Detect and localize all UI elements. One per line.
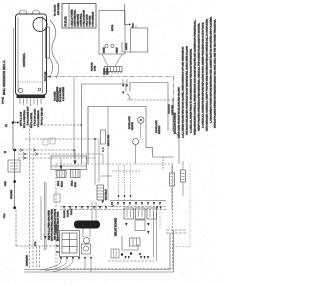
bus pin labels [64, 208, 73, 218]
frame pins [122, 85, 128, 95]
chassis right drop [173, 77, 175, 132]
control bottom terminal bar [17, 95, 46, 99]
front frame box A [81, 84, 126, 164]
ground terminal cluster [8, 160, 20, 172]
blob top leads [91, 202, 93, 221]
dark rounded component [74, 221, 100, 229]
L1 link [13, 122, 18, 124]
board bottom pin row [60, 257, 92, 260]
aux module [111, 249, 119, 258]
door box top ticks [133, 25, 136, 28]
latch dashed run [127, 99, 174, 101]
door lock switch circle [133, 139, 139, 145]
dashed stub [162, 157, 164, 170]
board bottom bus dashed 2 [60, 209, 166, 211]
relay board outline [56, 164, 173, 269]
motor drop [140, 123, 142, 138]
pin marker [129, 23, 131, 25]
striped relay R2 [97, 185, 104, 200]
bottom connector circle 1 [18, 88, 22, 92]
legend rows [72, 9, 95, 27]
wire tag 2 [50, 138, 55, 144]
dash ladder line 1 [25, 124, 81, 126]
top wire with pin [125, 4, 130, 24]
chassis line label [104, 67, 109, 74]
neutral vertical wire [14, 150, 16, 208]
transformer outer [60, 231, 80, 257]
small ring [84, 238, 90, 244]
bottom dashed collector [108, 260, 154, 262]
chassis dash-dot line [47, 76, 174, 78]
R2 pin [102, 201, 105, 204]
control inner edge left [17, 17, 19, 92]
neutral bottom corner [16, 245, 57, 247]
board bottom bus dashed 1 [60, 206, 166, 208]
legend box [62, 4, 96, 29]
relay coil feed dotted drops [119, 165, 131, 201]
relay row box 3 [147, 208, 157, 219]
latch squiggle [127, 94, 131, 100]
relay row box 1 [124, 208, 134, 219]
board vertical wires right [154, 212, 161, 261]
vent tick row [18, 81, 42, 83]
bottom connector circle 2 [38, 88, 41, 91]
harness connector strip P1 [46, 27, 50, 58]
harness squiggle 2 [50, 58, 53, 74]
low junction [13, 206, 16, 209]
quick-connect B body [71, 170, 81, 178]
oven liner corner [88, 107, 146, 165]
quick-connect B lead [74, 150, 76, 161]
pin drop wires [40, 260, 91, 272]
extra dash drops [36, 246, 38, 268]
long bus wire [107, 107, 109, 201]
relay row inner marks [127, 210, 154, 217]
R2 elbow wire [101, 175, 112, 177]
harness squiggle [50, 20, 59, 78]
feed wire labels [48, 209, 60, 241]
connector block P2 [105, 67, 123, 72]
dotted sense elbow [174, 246, 191, 248]
quick-connect B label [72, 180, 77, 187]
terminal strip inner line [51, 165, 87, 167]
L1 second dot [17, 122, 19, 124]
control inner edge [42, 16, 44, 93]
left bus pin marks [63, 206, 107, 210]
scan noise overlay [0, 0, 1, 1]
oven funnel wires [102, 54, 108, 67]
board left edge pins [57, 239, 61, 253]
N junction [13, 149, 16, 152]
terminal strip box [51, 156, 87, 170]
oven light label [55, 91, 60, 101]
motor wires [146, 107, 174, 158]
transformer grid [62, 233, 77, 253]
mid board pins [125, 223, 150, 234]
component box B [130, 238, 141, 246]
L wire on board [122, 236, 138, 250]
dash ladder line 3 [15, 149, 75, 151]
mounting tab 2 [32, 10, 40, 14]
left harness wire [13, 28, 15, 123]
wire tag 1 [43, 139, 48, 145]
bottom bus wires [24, 230, 174, 272]
door box [130, 28, 148, 52]
mid junction [13, 180, 16, 183]
relay row box 2 [136, 208, 146, 219]
control assembly outline [16, 14, 47, 95]
quick-connect A lead [60, 158, 62, 166]
thermal fuse 2 [181, 170, 186, 182]
legend divider [68, 4, 70, 29]
blob leads [82, 229, 84, 238]
bottom junction dots [121, 252, 141, 255]
door box lead [122, 42, 130, 52]
door lock motor circle [138, 117, 144, 123]
right edge stubs [166, 229, 186, 231]
chassis line arrow [47, 75, 51, 77]
component box A [135, 220, 145, 231]
board bottom bus solid [110, 200, 166, 202]
L1 junction [12, 121, 15, 124]
indicator square [82, 244, 91, 254]
long dash drop wire [29, 125, 31, 268]
to-clock label [55, 2, 60, 16]
bus pin triangles [111, 202, 161, 206]
bus right pins [156, 207, 162, 210]
dotted sense line [189, 164, 191, 247]
dash ladder line 2 [25, 138, 99, 140]
quick-connect B pin [74, 161, 77, 166]
board right edge upper wire [172, 98, 174, 131]
clock display circle [33, 18, 47, 32]
long dash drop wire 2 [32, 154, 34, 268]
feed corner box [54, 194, 60, 202]
bake element circle 1 [105, 44, 108, 47]
switch drop [135, 145, 137, 165]
feed pin dots [118, 195, 132, 197]
L1 vertical wire [12, 123, 14, 151]
connector label [92, 62, 97, 71]
thermal fuse 1 [170, 173, 175, 186]
quick-connect A label [58, 180, 63, 187]
ladder drop wires [74, 77, 103, 185]
wire group label [56, 86, 65, 102]
mounting tab 1 [19, 10, 27, 14]
board bottom pins right [125, 256, 150, 259]
quick-connect A body [57, 171, 66, 178]
bus left chevron [111, 204, 114, 207]
notes column lines [178, 16, 217, 138]
front frame box B [130, 83, 168, 132]
connector pin stubs [106, 72, 121, 74]
control pin leads [20, 99, 41, 107]
module pin [102, 148, 104, 151]
board feed wires [41, 182, 46, 250]
bake element circle 2 [111, 44, 114, 47]
neutral bottom run [15, 210, 17, 246]
small relay module [101, 130, 106, 144]
edge jog [173, 131, 179, 164]
quick-connect A pin [60, 166, 63, 171]
door lock labels [129, 116, 161, 134]
feed entry pins [44, 236, 50, 239]
feed cross dash [112, 170, 140, 172]
control wire name labels [21, 106, 44, 128]
dash ladder line 4 [18, 153, 103, 155]
ladder junction dots [73, 124, 96, 151]
latch run label [169, 104, 174, 115]
terminal chevrons [20, 149, 38, 160]
oven box [99, 11, 125, 55]
dash ladder line 5 [18, 157, 95, 159]
